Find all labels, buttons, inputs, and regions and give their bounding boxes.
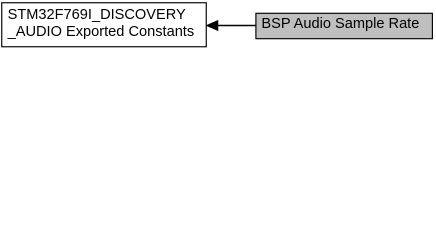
svg-text:BSP Audio Sample Rate: BSP Audio Sample Rate [261,16,419,32]
node box: STM32F769I_DISCOVERY_AUDIO Exported Constants [2,3,207,47]
arrowhead pointing left [207,21,218,31]
node box: BSP Audio Sample Rate (selected, grey fill) [256,13,433,38]
svg-text:STM32F769I_DISCOVERY: STM32F769I_DISCOVERY [8,7,186,23]
wire: edge shaft [218,25,257,27]
svg-text:_AUDIO Exported Constants: _AUDIO Exported Constants [7,24,195,40]
